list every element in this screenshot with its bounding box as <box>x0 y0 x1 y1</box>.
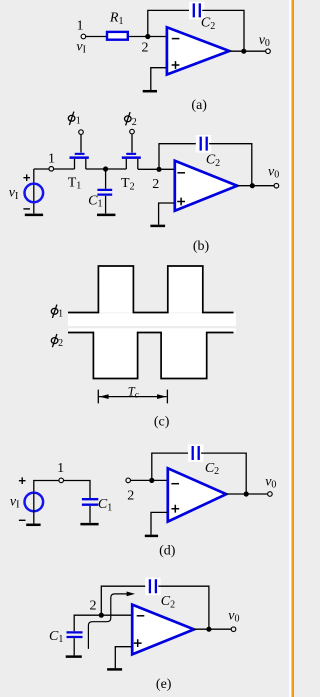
voltage source v_I circle (b) <box>25 184 44 203</box>
wire: node 2 to op-amp inverting input (d) <box>131 479 168 481</box>
svg-text:(b): (b) <box>193 239 210 254</box>
minus sign of source v_I <box>23 208 30 210</box>
Tc dimension left tick <box>97 390 99 404</box>
ground bar under C1 (b) <box>97 214 115 217</box>
v_O terminal circle <box>266 49 271 54</box>
wire: v_I branch to node 1 <box>34 168 51 170</box>
op-amp minus sign <box>172 38 180 40</box>
charge-flow arrowhead <box>127 592 135 597</box>
svg-text:(a): (a) <box>191 98 207 113</box>
phi1 clock label <box>68 112 80 127</box>
wire: phi2 terminal to T2 gate <box>131 134 133 152</box>
wire: non-inverting input to ground (b) <box>159 203 175 225</box>
capacitor C1 plates (e) <box>67 632 83 637</box>
wire: C2 to output branch (e) <box>158 586 209 629</box>
wire: feedback left vertical (e) <box>101 586 147 615</box>
wire: C1 to ground (d) <box>89 506 91 523</box>
feedback junction dot (d) <box>149 478 154 483</box>
capacitor C2 white backing (e) <box>145 578 160 596</box>
minus sign of source v_I (d) <box>19 519 26 521</box>
svg-text:(e): (e) <box>156 677 172 692</box>
wire: T1 right leg to T2 left leg <box>86 168 127 170</box>
wire: feedback left vertical (b) <box>159 144 197 170</box>
svg-text:2: 2 <box>127 489 134 504</box>
Tc right arrowhead <box>157 394 166 399</box>
phi1 pulse 2 white fill <box>168 266 203 313</box>
svg-text:2: 2 <box>142 41 149 56</box>
transistor T1 channel bar <box>70 156 89 159</box>
capacitor C2 white backing (b) <box>196 135 211 153</box>
wire: source top to C1 branch <box>34 481 90 499</box>
output junction dot (d) <box>244 491 249 496</box>
phi1 pulse 1 white fill <box>98 266 133 313</box>
voltage source v_I circle (d) <box>25 493 44 512</box>
svg-text:2: 2 <box>90 599 97 614</box>
svg-text:1: 1 <box>77 19 84 34</box>
ground bar under v_I (b) <box>25 214 43 217</box>
wire: C1 to ground (e) <box>73 638 75 655</box>
plus sign of source v_I (d) <box>19 477 26 484</box>
op-amp minus sign (b) <box>177 172 185 174</box>
op-amp plus sign (b) <box>177 198 185 206</box>
wire: resistor to op-amp inverting input <box>129 36 166 38</box>
output junction dot (b) <box>250 183 255 188</box>
phi1 waveform trace <box>68 266 234 313</box>
capacitor C2 plates (b) <box>201 137 207 151</box>
ground bar under C1 (d) <box>80 523 98 526</box>
op-amp U-d triangle <box>168 468 226 521</box>
svg-text:2: 2 <box>58 338 63 349</box>
phi2 terminal circle <box>130 129 135 134</box>
wire: op-amp output <box>229 50 265 52</box>
node 1 terminal circle (b) <box>49 167 54 172</box>
transistor T2 channel bar <box>122 156 141 159</box>
svg-text:(d): (d) <box>159 544 176 559</box>
v_O terminal circle (b) <box>274 183 279 188</box>
ground bar op-amp (e) <box>107 668 122 671</box>
op-amp plus sign (d) <box>171 505 179 513</box>
phi2 axis label <box>51 334 63 349</box>
Tc left arrowhead <box>99 394 108 399</box>
svg-text:1: 1 <box>76 116 81 127</box>
transistor T1 source/drain legs <box>75 159 86 169</box>
op-amp plus sign <box>172 61 180 69</box>
op-amp plus sign (e) <box>134 639 142 647</box>
wire: non-inverting input to ground <box>151 68 166 91</box>
wire: C2 right plate to output branch <box>202 10 244 51</box>
wire: op-amp output (b) <box>237 185 274 187</box>
wire through source to ground (d) <box>33 493 35 524</box>
svg-text:2: 2 <box>132 117 137 128</box>
op-amp minus sign (d) <box>171 483 179 485</box>
svg-text:2: 2 <box>152 177 159 192</box>
svg-text:1: 1 <box>57 461 64 476</box>
output junction dot <box>241 49 246 54</box>
wire: input node 1 to resistor R1 <box>83 36 106 38</box>
wire: junction down to C1 <box>105 169 107 189</box>
wire: non-inverting input to ground (d) <box>151 512 167 534</box>
ground bar (a) <box>143 90 157 93</box>
capacitor C1 plates (b) <box>97 190 112 195</box>
wire: C1 bottom plate to ground <box>105 196 107 214</box>
v_O terminal circle (d) <box>268 492 273 497</box>
node 2 junction dot (b) <box>156 167 161 172</box>
wire: phi1 terminal to T1 gate <box>80 135 82 153</box>
transistor T2 source/drain legs <box>126 159 138 169</box>
Tc dimension right tick <box>166 390 168 404</box>
node 2 terminal circle (d) <box>126 478 131 483</box>
output junction dot (e) <box>206 627 211 632</box>
ground bar op-amp (d) <box>145 535 158 538</box>
wire: C2 to output branch (d) <box>201 453 246 494</box>
ground bar op-amp (b) <box>150 225 165 228</box>
junction node at C1 top <box>103 166 108 171</box>
wire: T2 right leg to op-amp input <box>138 168 175 170</box>
node 1 terminal circle (d) <box>59 478 64 483</box>
white backing strip below phi1 baseline <box>68 313 236 326</box>
capacitor C2 white backing (d) <box>188 444 203 462</box>
op-amp U-b triangle <box>175 161 237 211</box>
phi2 pulse 1 white fill <box>93 333 137 379</box>
ground bar under v_I (d) <box>26 524 40 527</box>
wire: C2 to output branch (b) <box>209 144 252 186</box>
Tc dimension line <box>99 396 167 398</box>
capacitor C2 plates (e) <box>150 579 156 593</box>
transistor T2 gate bar <box>126 153 136 155</box>
capacitor C2 white backing <box>189 2 204 20</box>
op-amp U-a triangle <box>167 27 229 74</box>
wire: C1 top to op-amp inverting input (e) <box>74 615 132 631</box>
wire: op-amp output (d) <box>226 493 267 495</box>
svg-text:1: 1 <box>48 151 55 166</box>
phi1 axis label <box>51 305 63 320</box>
op-amp U-e triangle <box>132 605 194 655</box>
plus sign of source v_I <box>23 174 30 181</box>
op-amp minus sign (e) <box>137 615 145 617</box>
phi2 waveform trace <box>68 333 234 379</box>
ground bar under C1 (e) <box>66 655 82 658</box>
white backing strip above phi2 line <box>68 328 236 332</box>
capacitor C1 plates (d) <box>82 499 98 505</box>
charge-flow bent arrow annotation <box>88 594 128 649</box>
wire: non-inverting input to ground (e) <box>115 647 131 669</box>
wire: op-amp output (e) <box>194 628 231 630</box>
transistor T1 gate bar <box>75 153 85 155</box>
right page-edge gradient border <box>287 0 289 697</box>
capacitor C2 plates (d) <box>193 446 199 460</box>
node 2 junction dot (e) <box>99 613 104 618</box>
node 1 terminal circle <box>81 34 86 39</box>
phi2 clock label <box>125 112 137 128</box>
wire: node 1 to T1 left leg <box>54 168 75 170</box>
wire: v_I source vertical <box>33 169 35 214</box>
phi1 terminal circle <box>79 130 84 135</box>
v_O terminal circle (e) <box>231 627 236 632</box>
svg-text:1: 1 <box>58 308 63 319</box>
wire: feedback left vertical from node 2 <box>148 10 191 36</box>
phi2 pulse 2 white fill <box>161 333 207 379</box>
svg-text:(c): (c) <box>154 414 170 429</box>
wire: feedback left vertical (d) <box>152 453 190 480</box>
node 2 junction dot <box>145 34 150 39</box>
capacitor C2 plates <box>194 3 200 17</box>
resistor R1 <box>107 32 128 40</box>
